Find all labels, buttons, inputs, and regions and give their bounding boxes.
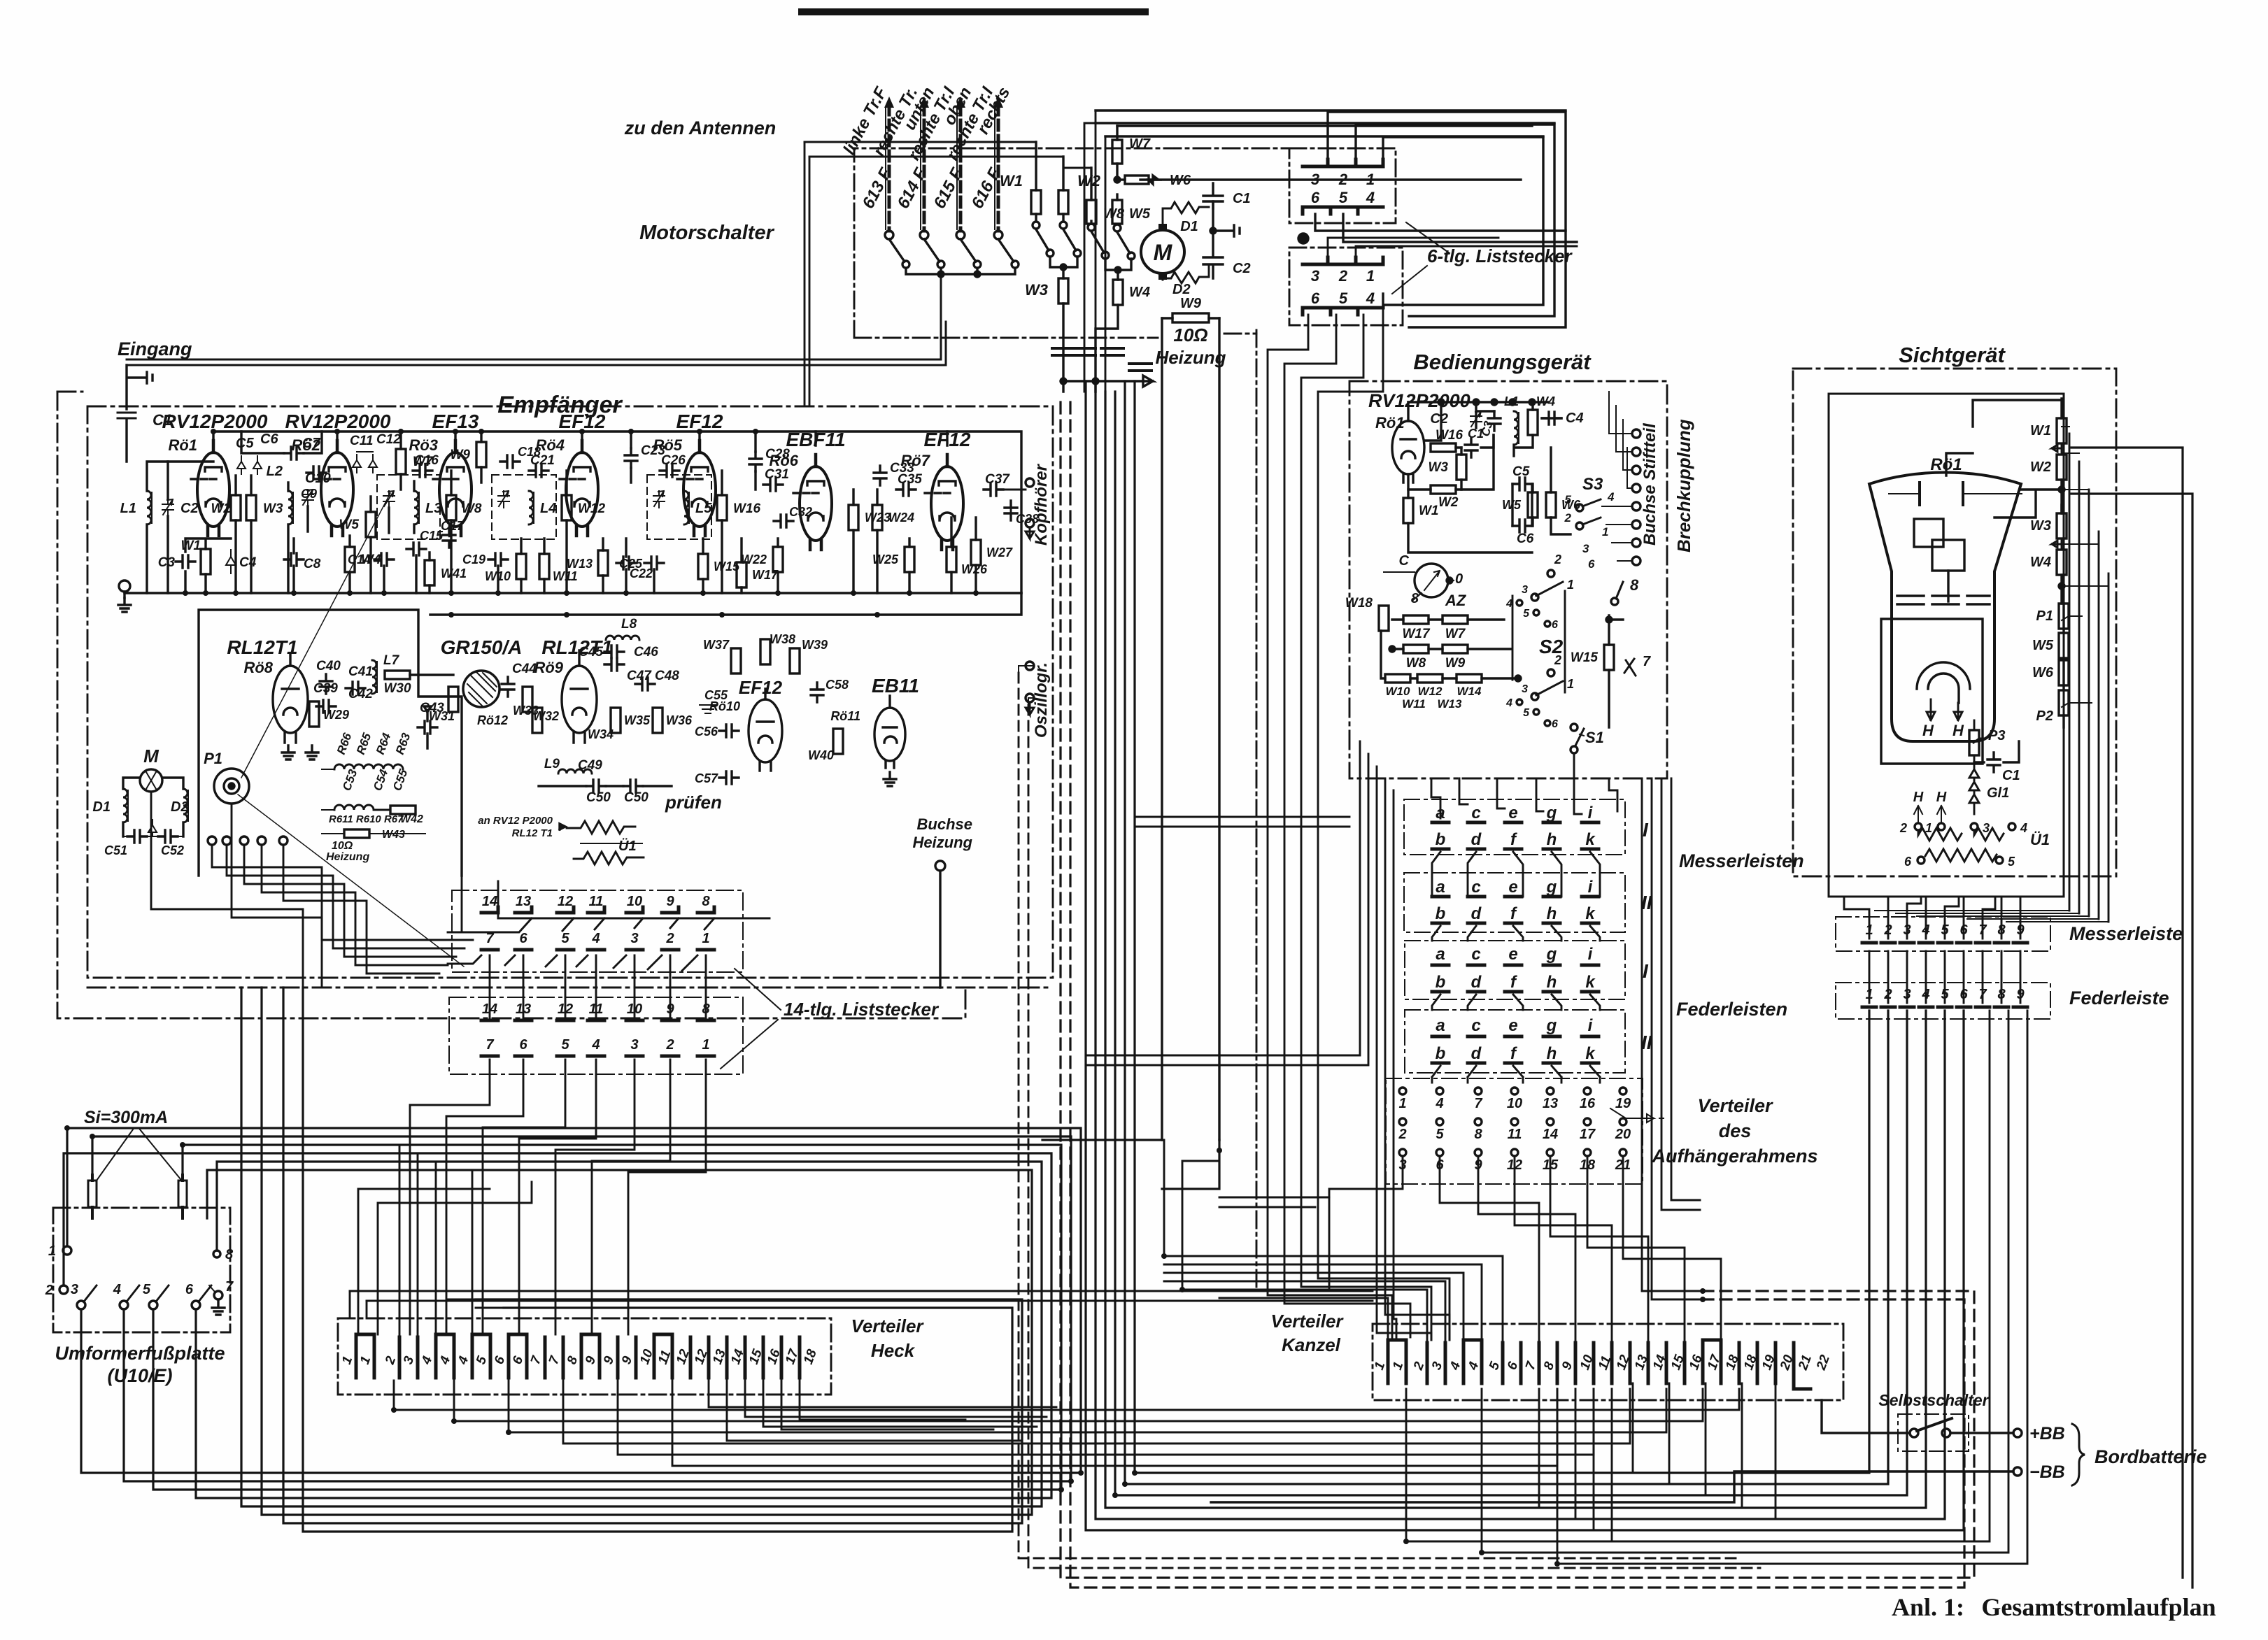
svg-text:5: 5 <box>2008 855 2015 869</box>
right side bundle sicht <box>2069 434 2108 922</box>
svg-text:C41: C41 <box>348 664 373 679</box>
svg-text:W42: W42 <box>400 813 423 825</box>
Verteiler Heck bottom drops <box>394 1381 1739 1466</box>
Messerleisten I box <box>1404 799 1625 855</box>
dashed stage box L3 <box>377 475 440 539</box>
svg-text:Sichtgerät: Sichtgerät <box>1899 343 2006 367</box>
svg-text:AZ: AZ <box>1445 592 1467 609</box>
svg-text:W3: W3 <box>1025 281 1048 299</box>
svg-text:D1: D1 <box>1180 219 1198 234</box>
antenna switch 1 <box>889 239 905 262</box>
mechanical link lines <box>238 493 464 967</box>
svg-text:g: g <box>1546 804 1557 822</box>
svg-text:C1: C1 <box>1233 191 1251 206</box>
svg-text:W12: W12 <box>1418 685 1443 698</box>
svg-text:10: 10 <box>1507 1096 1522 1111</box>
Bedienungsgerät left verticals to Kanzel <box>1086 741 1450 1340</box>
svg-text:W12: W12 <box>578 501 606 516</box>
resistors W31 Rö12 W32 <box>448 687 458 712</box>
svg-text:W34: W34 <box>588 727 614 741</box>
svg-text:W14: W14 <box>1457 685 1482 698</box>
cap C10 <box>306 466 326 479</box>
svg-text:EF12: EF12 <box>676 411 723 432</box>
svg-text:4: 4 <box>591 1037 600 1053</box>
beam grid dashes <box>1897 596 1990 604</box>
svg-text:16: 16 <box>1580 1096 1596 1111</box>
svg-text:Rö1: Rö1 <box>1375 414 1405 432</box>
svg-text:Ü1: Ü1 <box>618 838 637 854</box>
svg-text:I: I <box>1643 960 1649 982</box>
svg-text:C48: C48 <box>655 669 679 683</box>
resistor W7 <box>1112 126 1151 183</box>
Umformer pin 3 <box>77 1301 85 1309</box>
svg-text:W35: W35 <box>624 713 651 727</box>
svg-text:Brechkupplung: Brechkupplung <box>1673 419 1694 552</box>
fuse Si 2 <box>178 1181 187 1207</box>
motor M <box>1141 224 1184 280</box>
svg-text:2: 2 <box>1564 511 1572 525</box>
resistor W29 <box>309 701 319 727</box>
switch pair wiring to W3 W4 <box>1050 257 1077 278</box>
resistor W5 bed <box>1528 492 1538 518</box>
svg-text:k: k <box>1585 973 1596 992</box>
svg-text:W40: W40 <box>808 748 834 762</box>
resistor W6 <box>1117 173 1191 188</box>
terminals 2 1 3 4 <box>1915 823 1922 830</box>
svg-text:5: 5 <box>143 1282 151 1297</box>
svg-text:8: 8 <box>225 1247 234 1262</box>
svg-text:zu den Antennen: zu den Antennen <box>624 117 777 138</box>
transformer Ü1 winding 1 <box>1918 828 2004 841</box>
svg-text:L1: L1 <box>120 501 136 516</box>
svg-text:an RV12 P2000: an RV12 P2000 <box>478 815 553 827</box>
14-tlg I pins row A <box>481 907 714 913</box>
resistor W8 <box>1086 168 1125 259</box>
svg-text:8: 8 <box>1630 576 1639 594</box>
svg-text:k: k <box>1585 904 1596 923</box>
svg-text:W10: W10 <box>1386 685 1411 698</box>
svg-text:W4: W4 <box>1129 285 1150 300</box>
svg-text:Gl1: Gl1 <box>1987 785 2009 801</box>
resistor W2 sicht <box>2057 455 2067 480</box>
Motorschalter dash-dot box <box>854 148 1289 338</box>
capacitor C2 <box>1203 201 1223 278</box>
svg-text:C2: C2 <box>180 501 199 516</box>
svg-text:RL12 T1: RL12 T1 <box>512 827 553 839</box>
svg-text:Kanzel: Kanzel <box>1282 1334 1341 1355</box>
svg-text:C5: C5 <box>236 436 254 451</box>
svg-text:EF12: EF12 <box>739 677 783 698</box>
svg-text:C58: C58 <box>825 678 849 692</box>
svg-text:k: k <box>1585 1044 1596 1063</box>
resistor W16 <box>717 495 727 520</box>
svg-text:4: 4 <box>113 1282 121 1297</box>
svg-text:W15: W15 <box>1571 650 1599 665</box>
Federleisten I box <box>1405 941 1625 999</box>
14-tlg Liststecker II box <box>449 997 743 1074</box>
svg-text:C50: C50 <box>624 790 648 805</box>
Umformer pin 4 <box>120 1301 128 1309</box>
wires from connector box2 down to bundle <box>1268 301 1450 1340</box>
svg-text:g: g <box>1546 878 1557 897</box>
svg-text:6: 6 <box>1552 619 1558 631</box>
svg-text:19: 19 <box>1615 1096 1631 1111</box>
svg-text:W5: W5 <box>339 518 360 532</box>
svg-text:1: 1 <box>1366 267 1375 285</box>
svg-text:1: 1 <box>1567 578 1574 592</box>
svg-text:W1: W1 <box>1419 504 1439 518</box>
svg-text:1: 1 <box>1567 677 1574 691</box>
svg-text:W7: W7 <box>1129 136 1151 152</box>
junction dots scatter <box>64 1125 1706 1567</box>
svg-text:3: 3 <box>630 931 638 946</box>
svg-text:2: 2 <box>1554 653 1561 667</box>
cap C3 bed <box>1488 411 1501 431</box>
svg-text:4: 4 <box>1435 1096 1443 1111</box>
svg-text:C49: C49 <box>578 758 602 773</box>
svg-text:6: 6 <box>1588 557 1595 571</box>
wire bus tube tops row2 <box>337 432 947 452</box>
svg-text:C57: C57 <box>695 771 718 785</box>
resistors W8 W9 <box>1403 645 1429 653</box>
svg-text:Motorschalter: Motorschalter <box>639 222 774 244</box>
svg-text:W9: W9 <box>1180 296 1202 311</box>
svg-text:6: 6 <box>185 1282 194 1297</box>
brace Bordbatterie <box>2072 1424 2085 1485</box>
svg-text:6: 6 <box>519 1037 527 1053</box>
feed into Bedienungsgerät left <box>1135 817 1349 827</box>
caps C19 C20 W10 W11 <box>488 553 508 566</box>
svg-text:C12: C12 <box>376 432 401 447</box>
Verteiler Kanzel pin numbers <box>1372 1352 1833 1372</box>
14-tlg I to II connectors <box>490 955 706 1018</box>
Selbstschalter box <box>1898 1414 1969 1451</box>
caps C25 W15 W17 <box>644 557 664 569</box>
svg-text:W33: W33 <box>513 704 539 718</box>
svg-text:Oszillogr.: Oszillogr. <box>1032 662 1051 738</box>
resistor W6 bed <box>1546 492 1556 518</box>
svg-text:Rö1: Rö1 <box>168 436 197 454</box>
resistor W3 <box>1025 278 1068 392</box>
Umformer pin 2 <box>59 1285 68 1294</box>
svg-text:4: 4 <box>2020 821 2027 835</box>
resistor W4 <box>345 547 355 572</box>
svg-text:0: 0 <box>1455 571 1463 587</box>
svg-text:14: 14 <box>482 894 497 909</box>
resistor W1 <box>1000 142 1054 257</box>
svg-text:Heizung: Heizung <box>912 834 972 851</box>
left horizontal bundle upper <box>64 987 1081 1515</box>
svg-text:W5: W5 <box>2032 638 2054 653</box>
resistor W30 <box>385 671 410 679</box>
resistors W17 W7 <box>1403 615 1429 624</box>
svg-text:13: 13 <box>1543 1096 1558 1111</box>
svg-text:W17: W17 <box>752 568 779 582</box>
svg-text:Eingang: Eingang <box>118 338 192 359</box>
svg-text:W25: W25 <box>872 552 899 566</box>
svg-text:Messerleiste: Messerleiste <box>2069 923 2183 944</box>
svg-text:Messerleisten: Messerleisten <box>1679 850 1804 871</box>
svg-text:W41: W41 <box>441 566 467 580</box>
Verteiler des Aufhängerahmens box <box>1386 1078 1643 1184</box>
svg-text:6-tlg. Liststecker: 6-tlg. Liststecker <box>1427 245 1573 266</box>
svg-text:14-tlg. Liststecker: 14-tlg. Liststecker <box>784 999 940 1020</box>
svg-text:RL12T1: RL12T1 <box>227 636 297 658</box>
svg-text:L7: L7 <box>383 653 400 668</box>
svg-text:d: d <box>1471 830 1482 849</box>
svg-text:20: 20 <box>1615 1127 1631 1142</box>
svg-text:h: h <box>1547 830 1557 849</box>
svg-text:9: 9 <box>666 894 674 909</box>
rectifier Gl1 <box>1969 769 1979 814</box>
svg-text:C7: C7 <box>302 436 320 451</box>
svg-text:e: e <box>1508 945 1517 964</box>
antenna feeder 615F <box>956 97 965 239</box>
svg-text:H: H <box>1936 790 1947 805</box>
svg-text:W16: W16 <box>1436 428 1463 443</box>
svg-text:L3: L3 <box>425 501 441 516</box>
switch pair wiring to W4 <box>1105 259 1131 280</box>
antenna switch 4 <box>998 239 1014 262</box>
svg-text:Heizung: Heizung <box>1155 347 1226 368</box>
resistor W9 <box>1162 296 1219 322</box>
svg-text:11: 11 <box>589 894 604 909</box>
svg-text:W43: W43 <box>382 829 405 841</box>
svg-text:C5: C5 <box>1512 464 1530 479</box>
dashed stage box L4 <box>492 475 556 539</box>
svg-text:6: 6 <box>1904 855 1912 869</box>
Bedienungsgerät right verticals <box>1642 778 1703 1299</box>
pot P1 sicht <box>2059 604 2069 629</box>
resistor W2 bed <box>1431 485 1456 494</box>
top black bar <box>798 8 1149 15</box>
resistors W10 W12 W14 <box>1385 674 1410 683</box>
resistor W4 <box>1096 280 1150 392</box>
ground arrow on Aufhängerahmen <box>1610 1108 1664 1122</box>
svg-text:W3: W3 <box>1429 460 1449 475</box>
svg-text:c: c <box>1471 878 1480 897</box>
svg-text:C26: C26 <box>661 453 686 468</box>
svg-text:g: g <box>1546 945 1557 964</box>
svg-text:c: c <box>1471 1016 1480 1035</box>
wires Messerleiste to inner box <box>1844 897 2020 939</box>
svg-text:C9: C9 <box>301 487 317 501</box>
svg-text:Verteiler: Verteiler <box>1270 1311 1344 1332</box>
Bedienungsgerät dash-dot box <box>1349 381 1667 778</box>
antenna feeder 613F <box>884 97 894 239</box>
ground terminal <box>119 580 130 592</box>
outer dash-dot box <box>57 392 965 1018</box>
dashed pair from Empfänger outputs <box>1019 673 1760 1568</box>
svg-text:W27: W27 <box>986 546 1013 559</box>
svg-text:W36: W36 <box>666 713 693 727</box>
svg-text:8: 8 <box>702 894 710 909</box>
svg-text:C6: C6 <box>1517 532 1534 546</box>
svg-text:W2: W2 <box>211 501 232 516</box>
resistor W5 <box>1112 194 1151 259</box>
svg-text:2: 2 <box>1554 552 1561 566</box>
svg-text:Federleiste: Federleiste <box>2069 987 2169 1008</box>
resistor W12 <box>562 495 572 520</box>
svg-text:S3: S3 <box>1582 475 1603 494</box>
svg-text:Si=300mA: Si=300mA <box>84 1108 168 1127</box>
14-tlg II pins row A <box>481 1019 714 1022</box>
H H arrows <box>1927 699 1962 720</box>
Verteiler Heck pin numbers <box>339 1346 820 1367</box>
svg-text:C44: C44 <box>512 662 537 676</box>
Buchse Stiftteil terminals <box>1602 392 1640 565</box>
top feed lines into motor area <box>1096 110 1566 180</box>
pot P3 <box>1969 730 1979 755</box>
svg-text:I: I <box>1643 819 1649 841</box>
svg-text:C21: C21 <box>530 453 555 468</box>
caps C14 C15 C17 W41 <box>374 553 394 566</box>
svg-text:W7: W7 <box>1445 627 1466 641</box>
trimmer C13 + coil L3 <box>383 491 395 508</box>
svg-text:L8: L8 <box>621 617 637 632</box>
svg-text:C2: C2 <box>1430 411 1448 427</box>
svg-text:5: 5 <box>1523 608 1530 620</box>
Empfänger dash-dot box <box>87 406 1053 978</box>
Messerleisten II box <box>1404 873 1625 932</box>
svg-text:2: 2 <box>665 1037 674 1053</box>
wires snaking in 14-tlg I <box>448 918 770 932</box>
svg-text:Heck: Heck <box>871 1340 916 1361</box>
svg-text:2: 2 <box>1338 267 1348 285</box>
cap C21 <box>529 464 548 477</box>
svg-text:W1: W1 <box>2030 423 2051 438</box>
wire -BB <box>1211 1471 2013 1502</box>
pot P2 sicht <box>2059 690 2069 715</box>
svg-text:g: g <box>1546 1016 1557 1035</box>
svg-text:W29: W29 <box>323 708 349 722</box>
svg-text:1: 1 <box>1398 1096 1406 1111</box>
svg-text:P1: P1 <box>2036 608 2053 624</box>
6-tlg Liststecker box 2 <box>1289 248 1403 325</box>
caps around EBF11: C28 C31 C32 C33 W22 W23 W24 <box>749 452 762 471</box>
svg-text:C: C <box>1399 553 1410 569</box>
svg-text:3: 3 <box>1582 542 1589 555</box>
svg-text:W3: W3 <box>263 501 283 516</box>
caps C55 C56 C57 C58 <box>719 725 739 737</box>
Heizung lines bend left <box>1042 1140 1219 1189</box>
svg-text:1: 1 <box>48 1243 56 1259</box>
Sicht Federleiste-Messerleiste links <box>1869 951 2020 1003</box>
extra Heck feed drops <box>399 1145 1056 1427</box>
svg-text:C8: C8 <box>304 557 321 571</box>
right edge verticals <box>2071 448 2192 1588</box>
svg-text:4: 4 <box>1366 290 1375 307</box>
resistor W40 <box>833 729 843 754</box>
cap C1 bed <box>1465 438 1477 457</box>
svg-text:C55: C55 <box>704 688 728 702</box>
svg-text:C45: C45 <box>579 645 603 659</box>
svg-text:W2: W2 <box>1077 172 1101 190</box>
fuse Si 1 <box>88 1181 97 1207</box>
wire feed to receiver (double line) <box>127 274 946 365</box>
svg-text:13: 13 <box>516 894 531 909</box>
svg-text:e: e <box>1508 878 1517 897</box>
svg-text:d: d <box>1471 973 1482 992</box>
svg-text:W6: W6 <box>2032 665 2054 680</box>
svg-text:C37: C37 <box>985 472 1010 487</box>
svg-text:11: 11 <box>1508 1127 1522 1142</box>
svg-text:C16: C16 <box>414 453 439 468</box>
resistors W37 W38 W39 <box>731 648 741 673</box>
svg-text:P2: P2 <box>2036 708 2053 724</box>
ground bus <box>125 592 1021 594</box>
svg-text:W39: W39 <box>802 638 828 652</box>
svg-text:C42: C42 <box>348 687 373 701</box>
cap C7 <box>284 447 304 459</box>
svg-text:10: 10 <box>627 894 642 909</box>
Sichtgerät outer dash-dot box <box>1793 369 2116 876</box>
svg-text:M: M <box>143 746 160 766</box>
lower caps C3 W1 C4 <box>176 555 195 568</box>
svg-text:W30: W30 <box>383 681 411 696</box>
svg-text:C31: C31 <box>765 467 789 482</box>
svg-text:L2: L2 <box>267 464 283 479</box>
svg-text:W2: W2 <box>2030 459 2051 475</box>
Kopfhörer terminals <box>1026 478 1034 487</box>
Umformer pin 6 <box>192 1301 200 1309</box>
svg-text:C19: C19 <box>462 552 486 566</box>
svg-text:d: d <box>1471 904 1482 923</box>
svg-text:−BB: −BB <box>2029 1462 2065 1482</box>
resistor W15 <box>1604 645 1614 670</box>
svg-text:RV12P2000: RV12P2000 <box>1368 390 1470 411</box>
svg-text:2: 2 <box>665 931 674 946</box>
svg-text:H: H <box>1913 790 1924 805</box>
cap C4 bed <box>1542 412 1561 425</box>
svg-text:C25: C25 <box>619 557 643 571</box>
cap C33 C35 <box>874 466 886 485</box>
svg-text:2: 2 <box>1899 821 1907 835</box>
svg-text:5: 5 <box>1339 189 1348 206</box>
trimmer C2 <box>162 499 173 516</box>
svg-text:7: 7 <box>486 1037 494 1053</box>
svg-text:C1: C1 <box>1468 427 1484 441</box>
svg-text:W17: W17 <box>1402 627 1431 641</box>
svg-text:Ü1: Ü1 <box>2030 831 2050 848</box>
svg-text:W3: W3 <box>2030 518 2051 534</box>
Verteiler Heck box <box>338 1318 831 1395</box>
resistor D1 zigzag <box>1163 202 1209 224</box>
svg-text:Verteiler: Verteiler <box>851 1315 924 1336</box>
switch 8 <box>1616 582 1623 599</box>
svg-text:c: c <box>1471 804 1480 822</box>
svg-text:5: 5 <box>1565 493 1572 506</box>
resistor W5 sicht <box>2059 633 2069 658</box>
bed top bus <box>1408 402 1548 441</box>
svg-text:3: 3 <box>630 1037 638 1053</box>
svg-text:des: des <box>1719 1120 1752 1141</box>
svg-text:e: e <box>1508 804 1517 822</box>
svg-text:C40: C40 <box>316 659 341 673</box>
svg-text:W16: W16 <box>733 501 761 516</box>
resistor W16 <box>1431 443 1456 452</box>
svg-text:Bedienungsgerät: Bedienungsgerät <box>1413 350 1592 374</box>
cap C18 <box>500 455 520 468</box>
svg-text:C6: C6 <box>260 432 278 447</box>
svg-text:h: h <box>1547 1044 1557 1063</box>
svg-text:W4: W4 <box>1536 394 1555 408</box>
svg-text:3: 3 <box>1522 584 1528 596</box>
dashed stage box L5 <box>647 475 711 539</box>
extra Kanzel pin drops <box>1539 1389 1612 1541</box>
svg-text:d: d <box>1471 1044 1482 1063</box>
resistor W4 sicht <box>2057 550 2067 575</box>
